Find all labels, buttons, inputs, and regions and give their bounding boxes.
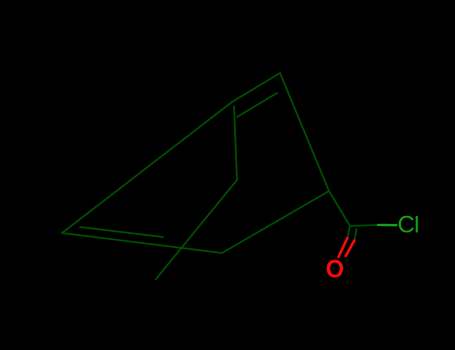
svg-text:O: O <box>326 256 344 284</box>
svg-text:C: C <box>398 212 415 239</box>
bond CC=O dark halves <box>347 226 350 238</box>
bond A-V4 vertical <box>234 106 237 180</box>
bond V3-C2 <box>222 191 329 253</box>
bond stub T-Mc short <box>80 227 163 237</box>
bond C2-CC <box>329 191 350 226</box>
bond A-B apex <box>232 73 280 102</box>
bond B-C2 steep right <box>280 73 329 191</box>
bond CC-Cl bright half <box>378 224 396 227</box>
bond CC-Cl dark half <box>350 225 378 226</box>
bond T-A long upper <box>62 102 232 233</box>
bond CC=O red halves <box>339 238 348 257</box>
bond T-V3 long lower <box>62 233 222 253</box>
bond V4-W crossing <box>156 180 237 279</box>
bond inner line below apex <box>237 93 277 117</box>
